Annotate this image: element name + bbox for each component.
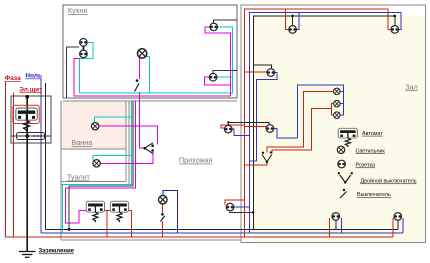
svg-text:Фаза: Фаза [5,75,21,82]
socket zal bottom2 [394,213,402,221]
svg-text:Кухня: Кухня [68,6,87,15]
lamp toilet [93,160,100,167]
double switch zal [262,151,272,163]
wire kitchen right socket magenta [205,77,231,85]
wire zal socket2 red [245,126,266,128]
wire panel phase drop [12,93,14,238]
wire hallway socket A ground [227,123,229,126]
wire neutral from Ноль down [40,79,42,233]
svg-text:Ванна: Ванна [72,138,93,147]
ground symbol [19,252,36,258]
wire kitchen lamp cyan drop [146,57,150,94]
wire hall socket red elbow [225,200,244,205]
node ground junction lower [252,211,254,213]
wall bath left / flat left [60,101,62,241]
socket hallway upper [225,125,233,133]
breaker main automat [16,108,37,132]
wire panel main down to ground [26,97,28,252]
legend double switch symbol [338,172,353,184]
node ground junction bath [68,228,71,231]
svg-text:Заземление: Заземление [39,249,75,255]
wire zal socket2 ground [228,123,269,125]
wire kitchen right socket ground [213,70,237,73]
svg-text:Эл.щит: Эл.щит [19,86,42,93]
wire kitchen sockets magenta [74,27,230,96]
wire kitchen top socket ground elbow [214,20,237,23]
wire hall lamp neutral navy [163,191,178,234]
wire bath circuits ground [69,101,133,230]
wire zal dblswitch red feed [244,163,267,165]
wire zal socket1 ground [253,65,271,69]
socket zal bottom1 [332,213,340,221]
wire phase bus bottom [6,236,394,238]
wire zal lamp cluster blue [298,85,344,138]
socket zal top1 [289,26,297,34]
wire hall socket ground [229,211,253,213]
wire kitchen right socket cyan stub [217,76,233,78]
wire zal top socket1 drops [285,9,288,30]
wire hallway socket A neutral [232,129,249,136]
wire phase feed from Фаза down left edge [5,82,7,238]
wire bath riser cyan in wall [63,101,132,234]
breaker main red highlight [13,105,39,123]
room Кухня walls [63,5,237,98]
wall bath right outer [128,101,130,185]
wall bath/toilet divider [61,148,126,150]
socket zal top2 [391,26,399,34]
wire zal lamps23 red [272,104,333,154]
legend socket symbol [338,160,346,168]
svg-text:Прихожая: Прихожая [179,156,212,165]
wire bath lamp cyan elbow [95,117,132,122]
wire zal red riser [245,9,391,237]
wire hall lamp red drop [162,204,164,213]
wire hallway socket A red elbow [221,125,245,128]
wire zal ground riser [253,16,394,229]
node panel input [25,95,29,99]
wire hall socket neutral [234,206,249,208]
wall hallway bottom [61,239,241,241]
wire bath riser magenta in wall [66,101,136,223]
wire automat2 output red [129,211,132,238]
socket kitchen left 1 [82,45,84,51]
wire zal blue riser [249,12,401,233]
room Ванна/Туалет fill [60,101,126,150]
socket kitchen right [209,73,217,81]
wire zal socket1 red [245,71,267,73]
wire kitchen lamp switched magenta [139,57,141,79]
wall kitchen bottom inner [63,100,237,102]
double switch hallway [143,143,154,154]
socket kitchen top [210,23,218,31]
wire toilet lamp cyan elbow [93,156,131,161]
legend switch symbol [343,189,345,191]
svg-text:Автомат: Автомат [362,131,383,137]
lamp bath [92,123,99,130]
node ground junction upper [227,121,229,123]
wire kitchen sockets cyan loop [80,27,233,93]
wire ground bus bottom [46,228,398,230]
socket hallway right [226,203,234,211]
wire toilet lamp magenta [101,152,153,164]
wire neutral bus bottom [41,232,403,234]
wire automat1 to automat2 red [107,210,111,212]
svg-text:Выключатель: Выключатель [357,192,391,198]
wire automat1 output red [105,211,107,238]
bus bar terminal strip [17,133,45,140]
electrical panel box Эл.щит [11,96,51,143]
switch kitchen [136,79,139,82]
svg-text:Розетка: Розетка [356,163,375,169]
svg-text:Светильник: Светильник [356,148,386,154]
wire bath lamp magenta [99,126,157,144]
switch hallway [161,213,164,216]
lamp hallway [159,195,168,204]
legend automat symbol [338,128,357,147]
breaker automat1 bottom [86,201,104,222]
lamp kitchen [137,49,146,58]
svg-text:Ноль: Ноль [25,73,42,80]
room Зал fill [254,16,426,243]
socket zal left1 [267,69,275,77]
wire zal bottom socket2 drops [392,218,394,237]
room Зал walls [241,5,426,243]
wall toilet bottom outer [61,183,129,185]
wire ground riser from panel [45,83,47,229]
wire zal lamp1 red [267,91,333,152]
socket kitchen left 2 [80,50,88,58]
breaker automat2 bottom [110,201,128,222]
svg-text:Двойной выключатель: Двойной выключатель [361,178,417,185]
lamp zal 2 [334,100,341,107]
wall toilet bottom inner [61,181,126,183]
wire zal bottom socket1 drops [328,218,330,237]
wall bath right inner [125,101,127,182]
socket zal left2 [266,125,274,133]
wire kitchen sockets ground [67,47,79,98]
svg-text:Зал: Зал [405,82,418,91]
svg-text:Туалет: Туалет [67,173,90,182]
lamp zal 3 [334,112,341,119]
wire zal socket1 blue loop [249,73,277,161]
wire zal socket2 blue loop [274,129,298,139]
lamp zal 1 [334,88,341,95]
legend lamp symbol [337,146,344,153]
